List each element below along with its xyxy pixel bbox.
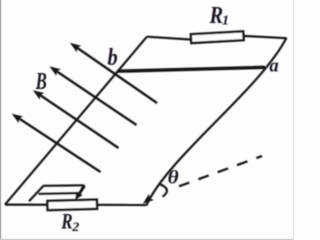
svg-text:1: 1 <box>222 14 229 29</box>
B field arrow 4 <box>16 116 101 172</box>
B field arrow 3 <box>37 93 119 148</box>
angle θ arc <box>160 184 167 197</box>
svg-text:R: R <box>60 209 72 234</box>
rail: right edge of incline <box>146 38 286 206</box>
svg-text:b: b <box>108 43 118 70</box>
svg-text:B: B <box>35 69 47 94</box>
dashed horizontal reference line <box>179 156 262 186</box>
svg-text:R: R <box>209 1 224 28</box>
svg-text:2: 2 <box>71 220 79 234</box>
wire: top edge left lead <box>147 37 192 40</box>
rod ab <box>118 67 266 71</box>
resistor R2 <box>47 200 97 210</box>
rheostat wiper (slider plate) <box>29 186 44 201</box>
wire: top edge right lead <box>243 36 287 38</box>
resistor R1 <box>191 31 244 43</box>
arrowhead at incline bottom corner <box>143 194 154 204</box>
B field arrow 1 <box>74 46 157 103</box>
svg-text:a: a <box>269 56 278 76</box>
rheostat wiper arrow <box>78 185 85 196</box>
rail: left edge of incline <box>5 37 147 205</box>
B field arrow 2 <box>54 69 137 125</box>
svg-text:θ: θ <box>168 168 180 189</box>
wire: bottom edge of incline <box>5 204 146 207</box>
